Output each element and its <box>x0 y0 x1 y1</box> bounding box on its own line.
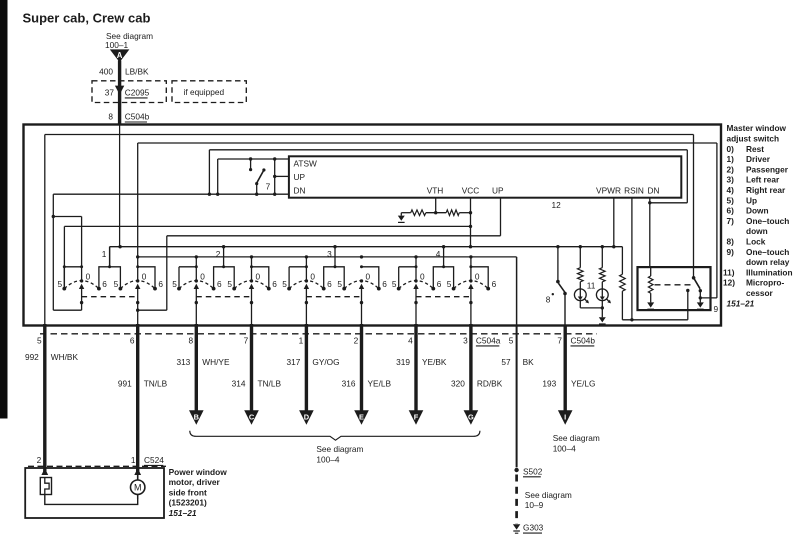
svg-text:8: 8 <box>188 335 193 345</box>
svg-text:7: 7 <box>244 335 249 345</box>
svg-text:4: 4 <box>436 249 441 259</box>
svg-text:RD/BK: RD/BK <box>477 379 503 389</box>
svg-text:Passenger: Passenger <box>746 164 789 174</box>
svg-text:F: F <box>414 412 419 421</box>
svg-text:6: 6 <box>492 279 497 289</box>
svg-text:5: 5 <box>509 335 514 345</box>
svg-text:C504a: C504a <box>476 335 501 345</box>
svg-text:8): 8) <box>727 237 735 247</box>
svg-text:4): 4) <box>727 185 735 195</box>
svg-text:320: 320 <box>451 379 465 389</box>
svg-text:Lock: Lock <box>746 237 766 247</box>
svg-text:6: 6 <box>217 279 222 289</box>
svg-text:0: 0 <box>142 271 147 281</box>
svg-text:8: 8 <box>546 294 551 304</box>
svg-text:0: 0 <box>310 271 315 281</box>
svg-text:M: M <box>134 483 142 493</box>
svg-text:100–4: 100–4 <box>553 444 576 454</box>
svg-text:YE/LB: YE/LB <box>368 379 392 389</box>
svg-text:5: 5 <box>282 279 287 289</box>
svg-text:Rest: Rest <box>746 144 764 154</box>
svg-text:B: B <box>194 412 199 421</box>
svg-text:Master window: Master window <box>727 123 787 133</box>
svg-text:316: 316 <box>342 379 356 389</box>
svg-text:7: 7 <box>557 335 562 345</box>
svg-text:11): 11) <box>723 267 735 277</box>
svg-text:1: 1 <box>131 455 136 465</box>
svg-text:RSIN: RSIN <box>624 185 644 195</box>
svg-text:100–4: 100–4 <box>316 454 339 464</box>
svg-text:VCC: VCC <box>462 185 480 195</box>
svg-text:G303: G303 <box>523 523 544 533</box>
svg-text:0: 0 <box>475 271 480 281</box>
svg-text:motor, driver: motor, driver <box>169 477 221 487</box>
svg-text:Power window: Power window <box>169 467 228 477</box>
svg-text:2: 2 <box>216 249 221 259</box>
svg-text:0: 0 <box>255 271 260 281</box>
svg-text:ATSW: ATSW <box>294 158 318 168</box>
svg-text:5: 5 <box>172 279 177 289</box>
svg-text:317: 317 <box>287 357 301 367</box>
svg-text:D: D <box>304 412 310 421</box>
svg-text:BK: BK <box>523 357 535 367</box>
svg-text:4: 4 <box>408 335 413 345</box>
svg-text:319: 319 <box>396 357 410 367</box>
svg-text:UP: UP <box>492 185 504 195</box>
svg-text:GY/OG: GY/OG <box>312 357 339 367</box>
svg-text:992: 992 <box>25 352 39 362</box>
svg-text:6: 6 <box>130 335 135 345</box>
svg-text:3): 3) <box>727 175 735 185</box>
svg-text:Up: Up <box>746 195 757 205</box>
svg-text:DN: DN <box>648 185 660 195</box>
svg-text:6: 6 <box>272 279 277 289</box>
svg-text:400: 400 <box>99 67 113 77</box>
svg-text:YE/BK: YE/BK <box>422 357 447 367</box>
svg-text:5: 5 <box>227 279 232 289</box>
svg-text:WH/YE: WH/YE <box>202 357 230 367</box>
svg-text:991: 991 <box>118 379 132 389</box>
svg-text:Micropro-: Micropro- <box>746 278 784 288</box>
svg-text:2: 2 <box>354 335 359 345</box>
svg-text:Super cab, Crew cab: Super cab, Crew cab <box>23 11 151 26</box>
svg-text:10–9: 10–9 <box>525 500 544 510</box>
svg-text:8: 8 <box>108 112 113 122</box>
svg-text:12: 12 <box>552 200 562 210</box>
svg-text:0: 0 <box>365 271 370 281</box>
svg-text:Down: Down <box>746 206 769 216</box>
svg-text:6: 6 <box>437 279 442 289</box>
svg-text:side front: side front <box>169 487 207 497</box>
svg-text:6: 6 <box>327 279 332 289</box>
svg-text:if equipped: if equipped <box>184 87 225 97</box>
svg-text:151–21: 151–21 <box>727 298 755 308</box>
svg-text:7: 7 <box>266 181 271 191</box>
svg-text:Left rear: Left rear <box>746 175 780 185</box>
svg-text:6): 6) <box>727 206 735 216</box>
svg-text:3: 3 <box>327 249 332 259</box>
svg-text:C504b: C504b <box>571 335 596 345</box>
svg-text:6: 6 <box>382 279 387 289</box>
svg-text:6: 6 <box>158 279 163 289</box>
svg-text:See diagram: See diagram <box>553 433 600 443</box>
svg-text:UP: UP <box>294 172 306 182</box>
svg-text:One–touch: One–touch <box>746 247 789 257</box>
svg-text:adjust switch: adjust switch <box>727 134 780 144</box>
svg-text:100–1: 100–1 <box>105 40 128 50</box>
svg-text:313: 313 <box>176 357 190 367</box>
svg-text:YE/LG: YE/LG <box>571 379 595 389</box>
svg-text:down relay: down relay <box>746 257 790 267</box>
svg-text:0: 0 <box>420 271 425 281</box>
svg-text:LB/BK: LB/BK <box>125 67 149 77</box>
svg-text:151–21: 151–21 <box>169 508 197 518</box>
svg-text:12): 12) <box>723 278 735 288</box>
svg-text:See diagram: See diagram <box>316 444 363 454</box>
svg-text:37: 37 <box>105 87 115 97</box>
svg-text:cessor: cessor <box>746 288 774 298</box>
svg-text:C: C <box>249 412 255 421</box>
svg-text:C504b: C504b <box>125 112 150 122</box>
svg-text:TN/LB: TN/LB <box>258 379 282 389</box>
svg-text:Illumination: Illumination <box>746 267 793 277</box>
svg-text:VPWR: VPWR <box>596 185 621 195</box>
svg-text:VTH: VTH <box>427 185 444 195</box>
svg-text:G: G <box>468 412 474 421</box>
svg-text:5: 5 <box>114 279 119 289</box>
svg-text:7): 7) <box>727 216 735 226</box>
svg-text:See diagram: See diagram <box>525 490 572 500</box>
svg-text:5): 5) <box>727 195 735 205</box>
svg-text:2): 2) <box>727 164 735 174</box>
svg-text:5: 5 <box>447 279 452 289</box>
svg-text:down: down <box>746 226 768 236</box>
svg-text:(1523201): (1523201) <box>169 498 207 508</box>
svg-text:1): 1) <box>727 154 735 164</box>
svg-text:TN/LB: TN/LB <box>144 379 168 389</box>
svg-text:C524: C524 <box>144 455 164 465</box>
svg-text:6: 6 <box>102 279 107 289</box>
svg-text:Driver: Driver <box>746 154 771 164</box>
svg-text:One–touch: One–touch <box>746 216 789 226</box>
svg-text:Right rear: Right rear <box>746 185 786 195</box>
svg-text:S502: S502 <box>523 466 543 476</box>
svg-text:0: 0 <box>86 271 91 281</box>
svg-text:3: 3 <box>463 335 468 345</box>
svg-text:5: 5 <box>37 335 42 345</box>
svg-text:1: 1 <box>102 249 107 259</box>
svg-text:WH/BK: WH/BK <box>51 352 79 362</box>
svg-text:5: 5 <box>337 279 342 289</box>
svg-text:0): 0) <box>727 144 735 154</box>
svg-text:C2095: C2095 <box>125 87 150 97</box>
svg-text:5: 5 <box>57 279 62 289</box>
svg-text:A: A <box>117 51 123 60</box>
svg-text:57: 57 <box>501 357 511 367</box>
svg-text:314: 314 <box>232 379 246 389</box>
svg-text:11: 11 <box>587 280 596 290</box>
svg-text:9): 9) <box>727 247 735 257</box>
svg-text:193: 193 <box>542 379 556 389</box>
svg-text:0: 0 <box>200 271 205 281</box>
svg-text:1: 1 <box>299 335 304 345</box>
svg-text:2: 2 <box>37 455 42 465</box>
svg-text:5: 5 <box>392 279 397 289</box>
svg-text:9: 9 <box>714 304 719 314</box>
svg-text:I: I <box>564 412 566 421</box>
svg-text:DN: DN <box>294 185 306 195</box>
svg-text:E: E <box>359 412 364 421</box>
